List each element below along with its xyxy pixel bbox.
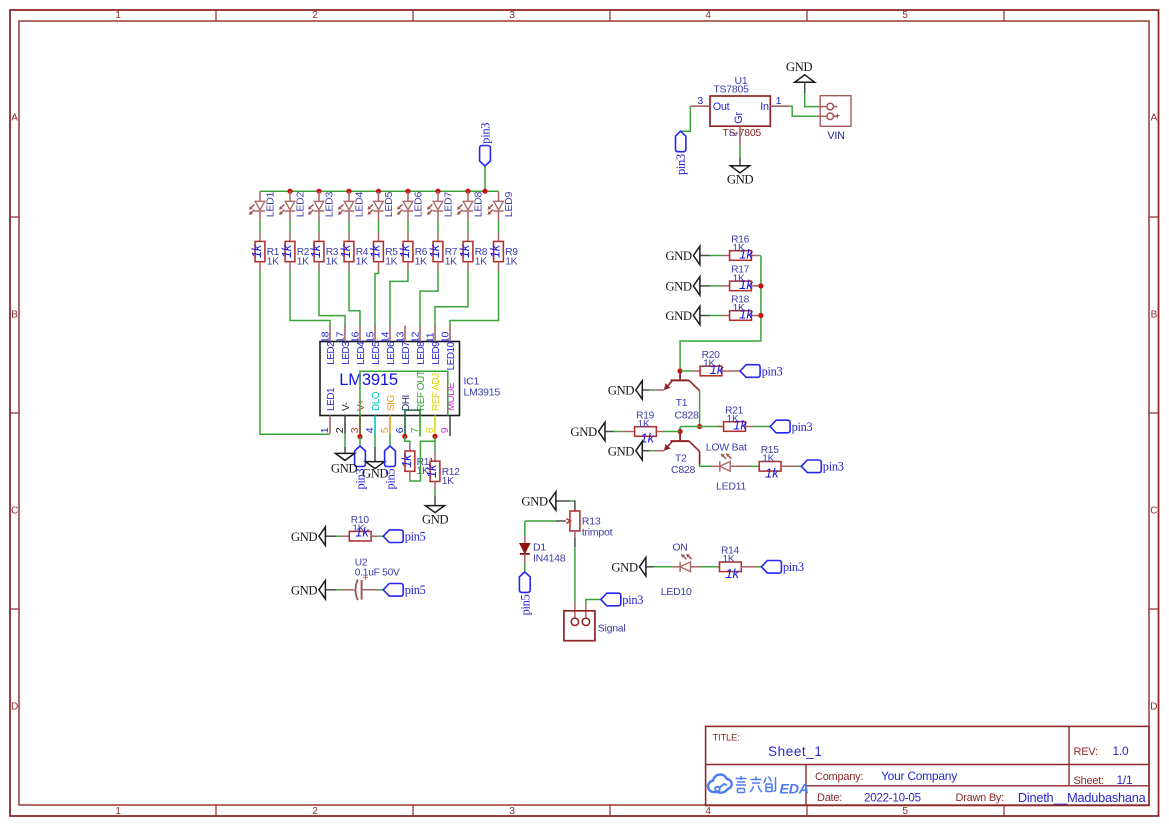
svg-text:T2: T2 bbox=[675, 452, 687, 464]
wire wiper to D1 branch bbox=[525, 520, 556, 522]
wire LED9 cathode to R9 bbox=[498, 220, 500, 232]
svg-text:GND: GND bbox=[331, 462, 358, 476]
wire V+ LED bus bbox=[260, 190, 499, 192]
ground GND at R16 bbox=[665, 246, 710, 265]
svg-text:1K: 1K bbox=[385, 256, 397, 267]
resistor R2 1K bbox=[279, 233, 310, 271]
svg-text:V-: V- bbox=[341, 402, 352, 411]
pin 1 (In) bbox=[770, 95, 790, 107]
resistor R20 1K bbox=[691, 350, 739, 377]
wire to pin 12 bbox=[420, 271, 438, 327]
svg-text:2: 2 bbox=[312, 10, 318, 21]
wire GND to U2 bbox=[336, 589, 340, 591]
wire LED4 cathode to R4 bbox=[348, 220, 350, 232]
ground GND at R18 bbox=[665, 306, 710, 325]
svg-text:GND: GND bbox=[422, 513, 449, 527]
resistor R3 1K bbox=[308, 233, 339, 271]
wire T2 emitter to ground bbox=[649, 450, 664, 452]
svg-text:LM3915: LM3915 bbox=[339, 370, 398, 389]
junction R18 tap bbox=[758, 313, 763, 318]
svg-text:2: 2 bbox=[312, 806, 318, 817]
junction T1 base node bbox=[678, 368, 683, 373]
ground GND at R17 bbox=[665, 277, 710, 296]
wire node down to T2 base bbox=[679, 427, 681, 432]
svg-text:LED4: LED4 bbox=[353, 192, 365, 218]
svg-text:GND: GND bbox=[786, 60, 813, 74]
pin 17 (top, LED3) bbox=[334, 326, 352, 365]
svg-text:D: D bbox=[1150, 702, 1157, 713]
wire GND to R10 bbox=[336, 535, 340, 537]
pin 6 (bottom, DHI) bbox=[394, 395, 412, 436]
ground GND at R10 bbox=[291, 527, 336, 546]
wire R17 to bus bbox=[759, 285, 761, 287]
svg-text:4: 4 bbox=[705, 806, 711, 817]
pin 5 (bottom, SIG) bbox=[379, 395, 397, 434]
svg-text:TS7805: TS7805 bbox=[713, 84, 749, 96]
resistor R1 1K bbox=[249, 233, 280, 271]
junction R19/T2 base node bbox=[678, 429, 683, 434]
svg-text:GND: GND bbox=[291, 583, 318, 597]
svg-text:5: 5 bbox=[902, 806, 908, 817]
svg-text:1K: 1K bbox=[356, 256, 368, 267]
wire R21 to pin3 flag bbox=[754, 426, 771, 428]
ground GND under U1 bbox=[727, 157, 754, 187]
net flag pin3 (R20) bbox=[740, 364, 782, 378]
resistor R11 1K bbox=[399, 444, 435, 479]
pin 13 (top, LED7) bbox=[394, 326, 412, 365]
svg-text:Your Company: Your Company bbox=[881, 769, 957, 783]
wire D1 to pin5 flag bbox=[524, 563, 526, 572]
regulator U1 TS7805 body bbox=[710, 75, 770, 139]
net flag pin3 (R15) bbox=[801, 460, 843, 474]
svg-text:GND: GND bbox=[611, 560, 638, 574]
svg-text:TITLE:: TITLE: bbox=[713, 733, 740, 744]
wire GND to R19 bbox=[614, 431, 622, 433]
junction pin3 node bbox=[357, 434, 362, 439]
wire R20 to pin3 flag bbox=[739, 370, 740, 372]
ground GND at R19 bbox=[570, 422, 614, 441]
svg-text:A: A bbox=[1151, 113, 1158, 124]
wire R12 to ground bbox=[434, 489, 436, 495]
svg-text:LM3915: LM3915 bbox=[464, 387, 501, 399]
svg-text:LED5: LED5 bbox=[371, 341, 382, 365]
svg-text:REF OUT: REF OUT bbox=[416, 370, 427, 411]
svg-text:DHI: DHI bbox=[401, 395, 412, 411]
svg-text:GND: GND bbox=[608, 384, 635, 398]
svg-text:1K: 1K bbox=[733, 273, 745, 284]
svg-text:GND: GND bbox=[608, 444, 635, 458]
ground GND at LED10 bbox=[611, 558, 653, 577]
resistor R5 1K bbox=[367, 233, 398, 271]
pin 3 (bottom, V+) bbox=[349, 399, 367, 434]
svg-text:V+: V+ bbox=[356, 399, 367, 411]
svg-text:7: 7 bbox=[409, 427, 421, 433]
svg-text:1/1: 1/1 bbox=[1117, 773, 1134, 787]
transistor T2 C828 bbox=[664, 432, 700, 476]
ground GND at T2 emitter bbox=[608, 441, 650, 460]
svg-text:3: 3 bbox=[697, 95, 703, 107]
svg-text:C828: C828 bbox=[671, 464, 696, 476]
svg-text:LED8: LED8 bbox=[472, 192, 484, 218]
svg-text:8: 8 bbox=[424, 427, 436, 433]
svg-text:C828: C828 bbox=[675, 409, 700, 421]
LED LED11 LOW Bat bbox=[706, 442, 747, 493]
wire LED8 cathode to R8 bbox=[467, 220, 469, 232]
svg-text:GND: GND bbox=[570, 425, 597, 439]
svg-text:1K: 1K bbox=[762, 454, 774, 465]
svg-text:Date:: Date: bbox=[817, 792, 842, 804]
logo EasyEDA bbox=[708, 774, 809, 797]
svg-text:3: 3 bbox=[509, 806, 515, 817]
svg-text:Drawn By:: Drawn By: bbox=[956, 792, 1005, 804]
svg-text:1k: 1k bbox=[487, 243, 502, 258]
wire R16 to bus bbox=[759, 255, 761, 257]
wire to pin 10 bbox=[450, 271, 499, 327]
capacitor U2 0.1uF 50V bbox=[341, 558, 401, 601]
wire LED3 cathode to R3 bbox=[318, 220, 320, 232]
resistor R9 1K bbox=[487, 233, 518, 271]
svg-text:14: 14 bbox=[379, 331, 391, 343]
svg-text:1K: 1K bbox=[442, 476, 454, 487]
resistor R21 1K bbox=[717, 405, 754, 432]
ground GND under R12 bbox=[422, 495, 449, 526]
net flag pin3 (R21) bbox=[770, 420, 812, 434]
svg-text:1K: 1K bbox=[733, 303, 745, 314]
svg-text:LED6: LED6 bbox=[386, 341, 397, 365]
svg-text:REV:: REV: bbox=[1074, 746, 1098, 758]
svg-text:LED8: LED8 bbox=[416, 341, 427, 365]
pin 10 (top, LED10) bbox=[439, 326, 457, 371]
svg-text:6: 6 bbox=[394, 427, 406, 433]
svg-text:LOW Bat: LOW Bat bbox=[706, 442, 747, 454]
wire R1 to IC1 pin 1 bbox=[260, 271, 330, 434]
svg-text:LED7: LED7 bbox=[442, 192, 454, 218]
svg-text:pin5: pin5 bbox=[518, 594, 532, 615]
svg-text:REF ADJ: REF ADJ bbox=[431, 373, 442, 411]
svg-text:1k: 1k bbox=[367, 243, 382, 258]
svg-text:1k: 1k bbox=[397, 243, 412, 258]
svg-text:trimpot: trimpot bbox=[582, 527, 613, 539]
svg-text:LED2: LED2 bbox=[326, 341, 337, 365]
svg-text:1K: 1K bbox=[267, 256, 279, 267]
pin 11 (top, LED9) bbox=[424, 326, 442, 365]
svg-text:5: 5 bbox=[379, 427, 391, 433]
svg-text:1k: 1k bbox=[765, 466, 780, 481]
pin 7 (bottom, REF OUT) bbox=[409, 370, 427, 436]
svg-text:LED5: LED5 bbox=[383, 192, 395, 218]
svg-text:1k: 1k bbox=[308, 243, 323, 258]
resistor R16 1K bbox=[722, 234, 759, 261]
svg-text:R13: R13 bbox=[582, 515, 601, 527]
svg-text:1K: 1K bbox=[703, 358, 715, 369]
junction DHI pin6 node bbox=[402, 434, 407, 439]
trimpot R13 bbox=[556, 500, 613, 547]
svg-text:10: 10 bbox=[439, 331, 451, 343]
svg-text:B: B bbox=[11, 310, 18, 321]
svg-text:A: A bbox=[11, 113, 18, 124]
svg-text:LED10: LED10 bbox=[661, 586, 692, 598]
svg-text:11: 11 bbox=[424, 332, 436, 343]
svg-text:12: 12 bbox=[409, 331, 421, 343]
svg-text:1K: 1K bbox=[445, 256, 457, 267]
svg-text:15: 15 bbox=[364, 331, 376, 343]
svg-text:IN4148: IN4148 bbox=[533, 552, 566, 564]
svg-text:LED7: LED7 bbox=[401, 341, 412, 365]
svg-text:GND: GND bbox=[291, 530, 318, 544]
svg-text:D: D bbox=[11, 702, 18, 713]
LED LED8 bbox=[457, 191, 484, 220]
svg-text:2: 2 bbox=[728, 131, 740, 137]
resistor R12 1K bbox=[424, 453, 460, 489]
wire T1 collector down bbox=[699, 391, 701, 427]
svg-text:1: 1 bbox=[776, 95, 782, 107]
wire pin3 to flag bbox=[359, 437, 361, 446]
svg-text:1K: 1K bbox=[505, 256, 517, 267]
svg-text:3: 3 bbox=[509, 10, 515, 21]
wire R19 to base node bbox=[663, 431, 680, 433]
pin 12 (top, LED8) bbox=[409, 326, 427, 365]
svg-text:LED10: LED10 bbox=[446, 341, 457, 370]
svg-text:+: + bbox=[834, 111, 840, 122]
svg-text:1: 1 bbox=[115, 10, 121, 21]
svg-text:1K: 1K bbox=[727, 414, 739, 425]
wire ground to VIN pin 1 bbox=[805, 93, 818, 107]
svg-text:pin3: pin3 bbox=[783, 560, 804, 574]
svg-text:pin5: pin5 bbox=[405, 583, 426, 597]
svg-text:13: 13 bbox=[394, 331, 406, 343]
wire GND to R17 bbox=[710, 285, 722, 287]
wire pin5 to flag bbox=[389, 434, 391, 447]
svg-text:1k: 1k bbox=[399, 453, 414, 468]
diode D1 IN4148 bbox=[520, 536, 566, 564]
svg-text:1K: 1K bbox=[326, 256, 338, 267]
svg-text:LED4: LED4 bbox=[356, 341, 367, 365]
svg-text:LED2: LED2 bbox=[294, 192, 306, 218]
ground GND above VIN (inverted) bbox=[786, 60, 815, 93]
junction REF ADJ pin8 node bbox=[432, 434, 437, 439]
svg-text:9: 9 bbox=[439, 427, 451, 433]
net flag pin5 (R10) bbox=[383, 530, 425, 544]
svg-text:4: 4 bbox=[364, 427, 376, 433]
resistor R8 1K bbox=[457, 233, 488, 271]
svg-text:pin5: pin5 bbox=[405, 530, 426, 544]
svg-text:LED9: LED9 bbox=[431, 341, 442, 365]
wire pin8 to R12 bbox=[434, 436, 436, 453]
wire to pin 16 bbox=[349, 271, 360, 327]
LED LED10 ON bbox=[661, 541, 692, 598]
resistor R10 1K bbox=[341, 515, 379, 541]
svg-text:SIG: SIG bbox=[386, 395, 397, 411]
svg-text:5: 5 bbox=[902, 10, 908, 21]
svg-text:1k: 1k bbox=[279, 243, 294, 258]
svg-text:LED1: LED1 bbox=[264, 192, 276, 218]
svg-text:1K: 1K bbox=[415, 256, 427, 267]
LED LED1 bbox=[249, 191, 276, 220]
pin 3 (Out) bbox=[690, 95, 710, 107]
svg-text:pin3: pin3 bbox=[823, 460, 844, 474]
svg-text:LED1: LED1 bbox=[326, 387, 337, 411]
wire R18 to bus bbox=[759, 315, 761, 317]
wire LED5 cathode to R5 bbox=[378, 220, 380, 232]
transistor T1 C828 bbox=[664, 371, 700, 421]
svg-text:1K: 1K bbox=[352, 524, 364, 535]
svg-text:Signal: Signal bbox=[598, 622, 626, 634]
LED LED7 bbox=[427, 191, 454, 220]
svg-text:LED3: LED3 bbox=[341, 341, 352, 365]
wire GND to R18 bbox=[710, 315, 722, 317]
net flag pin3 (under IC) bbox=[354, 446, 368, 490]
LED LED5 bbox=[368, 191, 395, 220]
wire T2 collector to LED11 bbox=[700, 451, 711, 466]
svg-text:1K: 1K bbox=[733, 243, 745, 254]
LED LED4 bbox=[338, 191, 365, 220]
LED LED9 bbox=[488, 191, 515, 220]
ground GND at pin 2 bbox=[331, 434, 358, 476]
pin 14 (top, LED6) bbox=[379, 326, 397, 365]
LED LED6 bbox=[397, 191, 424, 220]
svg-text:C: C bbox=[1150, 506, 1157, 517]
svg-text:VIN: VIN bbox=[827, 130, 844, 142]
wire LED1 cathode to R1 bbox=[259, 220, 261, 232]
pin 15 (top, LED5) bbox=[364, 326, 382, 365]
svg-text:18: 18 bbox=[319, 331, 331, 343]
wire U2 to pin5 flag bbox=[378, 589, 383, 591]
svg-text:LED11: LED11 bbox=[716, 480, 746, 492]
op-amp IC1 LM3915 body bbox=[320, 342, 500, 416]
svg-text:LED6: LED6 bbox=[412, 192, 424, 218]
resistor R17 1K bbox=[722, 265, 759, 292]
pin 16 (top, LED4) bbox=[349, 326, 367, 365]
wire to pin 18 bbox=[290, 271, 330, 327]
net flag pin5 (under IC) bbox=[384, 446, 398, 490]
wire Signal to pin3 flag bbox=[586, 600, 601, 605]
svg-text:Sheet:: Sheet: bbox=[1074, 775, 1104, 787]
wire pin3 net to LED bus bbox=[484, 166, 486, 191]
wire collector node horizontal bbox=[680, 426, 724, 428]
svg-text:GND: GND bbox=[665, 249, 692, 263]
ground GND at T1 emitter bbox=[608, 381, 650, 400]
wire to pin 11 bbox=[435, 271, 468, 327]
resistor R14 1K bbox=[717, 546, 756, 581]
svg-text:Sheet_1: Sheet_1 bbox=[768, 744, 823, 759]
resistor R7 1K bbox=[427, 233, 458, 271]
svg-text:4: 4 bbox=[705, 10, 711, 21]
junction dots on LED bus bbox=[287, 189, 487, 194]
LED LED2 bbox=[279, 191, 306, 220]
pin 4 (bottom, DLO) bbox=[364, 391, 382, 433]
svg-text:GND: GND bbox=[665, 280, 692, 294]
wire R16-R18 bus down to T1 base bbox=[680, 256, 761, 372]
resistor R6 1K bbox=[397, 233, 428, 271]
svg-text:GND: GND bbox=[727, 173, 754, 187]
svg-text:1K: 1K bbox=[723, 554, 735, 565]
svg-text:T1: T1 bbox=[676, 397, 688, 409]
pin 1 (bottom, LED1) bbox=[319, 387, 337, 433]
svg-text:pin5: pin5 bbox=[384, 469, 398, 490]
svg-text:1: 1 bbox=[319, 427, 331, 433]
wire In to VIN pin 2 bbox=[790, 106, 817, 116]
ground GND at R13 bbox=[521, 492, 563, 511]
svg-text:Gr: Gr bbox=[733, 112, 745, 124]
svg-text:1.0: 1.0 bbox=[1113, 744, 1130, 758]
svg-text:1k: 1k bbox=[457, 243, 472, 258]
ground GND at U2 bbox=[291, 581, 336, 600]
svg-text:pin3: pin3 bbox=[479, 123, 493, 144]
wire R10 to pin5 flag bbox=[378, 535, 383, 537]
wire to pin 14 bbox=[390, 271, 408, 327]
resistor R4 1K bbox=[338, 233, 369, 271]
wire GND to R16 bbox=[710, 255, 722, 257]
svg-text:pin3: pin3 bbox=[792, 420, 813, 434]
pin 9 (bottom, MODE) bbox=[439, 382, 457, 436]
pin 2 (Gr) bbox=[728, 126, 740, 146]
net flag pin3 (Signal) bbox=[601, 593, 643, 607]
svg-text:1K: 1K bbox=[638, 419, 650, 430]
svg-text:pin3: pin3 bbox=[762, 364, 783, 378]
net flag pin3 (R14) bbox=[761, 560, 803, 574]
wire LED11 to R15 bbox=[730, 465, 758, 467]
net flag pin5 (D1) bbox=[518, 572, 532, 616]
wire LED6 cathode to R6 bbox=[407, 220, 409, 232]
connector Signal bbox=[564, 602, 626, 641]
svg-text:2022-10-05: 2022-10-05 bbox=[864, 791, 921, 804]
svg-text:1: 1 bbox=[115, 806, 121, 817]
net flag pin3 (U1 out) bbox=[674, 131, 688, 175]
resistor R18 1K bbox=[722, 294, 759, 321]
svg-text:GND: GND bbox=[521, 495, 548, 509]
svg-text:pin3: pin3 bbox=[622, 593, 643, 607]
svg-text:EDA: EDA bbox=[780, 782, 809, 798]
pin 8 (bottom, REF ADJ) bbox=[424, 373, 442, 434]
wire R13 to Signal connector bbox=[574, 547, 576, 602]
svg-text:GND: GND bbox=[665, 309, 692, 323]
wire T1 emitter to ground bbox=[649, 389, 664, 391]
wire Gr to ground bbox=[739, 146, 741, 157]
wire base node to R20 bbox=[680, 370, 691, 372]
resistor R19 1K bbox=[622, 410, 664, 445]
wire LED10 to R14 bbox=[691, 566, 717, 568]
pin 18 (top, LED2) bbox=[319, 326, 337, 365]
wire LED7 cathode to R7 bbox=[437, 220, 439, 232]
svg-text:Dineth__Madubashana: Dineth__Madubashana bbox=[1018, 790, 1147, 805]
net flag pin5 (U2) bbox=[383, 583, 425, 597]
svg-text:17: 17 bbox=[334, 331, 346, 343]
net flag pin3 (top) bbox=[479, 123, 493, 166]
svg-text:1k: 1k bbox=[427, 243, 442, 258]
svg-text:C: C bbox=[11, 506, 18, 517]
wire GND to R13 bbox=[570, 500, 575, 502]
LED LED3 bbox=[308, 191, 335, 220]
svg-text:In: In bbox=[760, 101, 769, 113]
svg-text:1k: 1k bbox=[424, 463, 439, 478]
svg-text:pin3: pin3 bbox=[674, 154, 688, 175]
svg-text:B: B bbox=[1151, 310, 1158, 321]
ground GND at pin 4 bbox=[362, 434, 389, 481]
junction R17 tap bbox=[758, 283, 763, 288]
svg-text:Company:: Company: bbox=[815, 771, 863, 783]
pin 2 (bottom, V-) bbox=[334, 402, 352, 433]
wire V+ pin3 to MODE pin9 (routed across IC) bbox=[360, 371, 448, 436]
wire D1 branch down bbox=[524, 521, 526, 536]
resistor R15 1K bbox=[758, 445, 798, 480]
svg-text:LED9: LED9 bbox=[503, 192, 515, 218]
title block bbox=[706, 726, 1149, 805]
svg-text:1k: 1k bbox=[338, 243, 353, 258]
wire R15 to pin3 flag bbox=[798, 465, 801, 467]
svg-text:LED3: LED3 bbox=[323, 192, 335, 218]
svg-text:1k: 1k bbox=[725, 566, 740, 581]
svg-text:0.1uF 50V: 0.1uF 50V bbox=[355, 567, 400, 578]
